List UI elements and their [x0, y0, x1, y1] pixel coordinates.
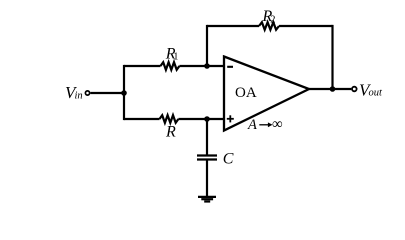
svg-text:1: 1 [173, 51, 178, 62]
wire input vertical (node A tee) [123, 66, 125, 119]
wire feedback right vertical [331, 26, 333, 89]
svg-text:2: 2 [270, 15, 275, 26]
wire Vin terminal to node A [90, 92, 124, 94]
wire feedback top left to R2 [207, 25, 259, 27]
ground bar 3 [204, 200, 210, 202]
terminal Vin [85, 91, 89, 95]
op-amp inverting pin minus sign [227, 66, 233, 68]
svg-text:A: A [247, 117, 257, 133]
wire R2 to feedback right corner [279, 25, 333, 27]
op-amp non-inverting pin plus sign vertical [229, 115, 231, 122]
svg-text:R: R [165, 124, 176, 141]
ground bar 2 [201, 198, 213, 200]
wire capacitor to ground [206, 161, 208, 197]
wire R to non-inverting input [178, 118, 224, 120]
wire R1 to inverting input [179, 65, 224, 67]
wire node C down to capacitor [206, 119, 208, 155]
capacitor C top plate [197, 154, 217, 156]
svg-text:OA: OA [235, 85, 257, 101]
wire node A to R (bottom branch) [124, 118, 160, 120]
svg-text:C: C [223, 150, 234, 167]
op-amp non-inverting pin plus sign horizontal [227, 118, 234, 120]
resistor R [160, 115, 179, 123]
node B inverting-input junction dot [204, 63, 210, 69]
op-amp U1 triangle body [224, 57, 309, 131]
resistor R2 [259, 22, 279, 30]
node A junction dot [121, 90, 127, 96]
wire op-amp output to Vout [309, 88, 351, 90]
wire feedback left vertical [206, 26, 208, 66]
wire node A to R1 [124, 65, 161, 67]
capacitor C bottom plate [197, 158, 217, 160]
svg-text:∞: ∞ [272, 116, 283, 132]
node C non-inverting-input junction dot [204, 116, 210, 122]
svg-text:out: out [369, 88, 384, 99]
resistor R1 [161, 62, 180, 70]
ground bar 1 [198, 196, 216, 198]
node D output junction dot [330, 86, 336, 92]
terminal Vout [352, 87, 357, 92]
svg-text:in: in [75, 90, 83, 101]
